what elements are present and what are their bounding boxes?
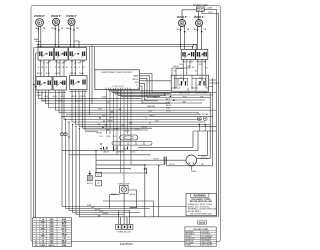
right drop wire A [209,92,211,158]
junction dot lower [146,172,147,173]
infinite switch SW1 [38,48,54,61]
label right mesh texts [146,97,159,123]
svg-text:R-BK: R-BK [79,73,84,75]
wire riser stub [34,39,41,41]
warning box W1 [186,193,217,215]
selector switch SW7 [53,77,67,91]
label mesh wires [98,97,156,129]
wire lock motor drop [144,165,146,217]
svg-text:W-BK: W-BK [114,129,120,131]
svg-text:H1: H1 [55,61,57,63]
surface unit SU3 [68,18,75,25]
svg-text:N.O.: N.O. [180,78,184,80]
junction dots on buses [38,44,39,45]
svg-text:OR-B: OR-B [55,73,61,75]
surface unit SU1 (dual) [36,19,44,27]
svg-text:P2: P2 [97,183,99,185]
right drop wire D [218,14,220,217]
svg-text:SWITCH: SWITCH [116,152,124,154]
wire TB1 to SU5 [197,12,199,20]
wire switch to relay feeders [176,59,206,75]
switch SW2 contacts [56,52,66,57]
svg-text:V-BK: V-BK [102,97,107,99]
wire SU5 to switch [197,26,201,50]
svg-text:BROIL: BROIL [133,79,140,81]
label terminal row under SW4 [182,61,206,63]
svg-text:R-W: R-W [46,73,50,75]
wire SU2 to switch [55,25,59,48]
svg-text:BAKE: BAKE [133,75,139,78]
svg-text:R-W: R-W [179,64,183,66]
latch cable bar [112,142,152,146]
switch contact arrows [43,53,203,84]
infinite switch SW4 [181,49,195,59]
wire extra mesh lines [66,115,196,132]
wire SU4 to switch [180,26,184,50]
switch SW3 contacts [70,52,84,57]
wire under row2 boxes [36,92,87,93]
label relay internals [180,78,203,80]
svg-text:P1: P1 [97,175,99,177]
door lock assembly A1 [100,135,153,154]
svg-text:N-W: N-W [209,12,213,14]
svg-text:N.C.: N.C. [113,136,117,138]
label right column [166,105,171,113]
infinite switch SW2 [55,48,69,61]
svg-text:GY-R: GY-R [198,64,203,66]
svg-text:H1: H1 [71,61,73,63]
arrow marks on left risers [33,84,37,88]
infinite switch SW3 (dual) [69,48,87,61]
svg-text:L1-BK: L1-BK [207,8,213,10]
arrow ticks on SU wires [37,29,202,34]
svg-text:W: W [46,67,48,69]
svg-text:BK-W: BK-W [37,73,42,75]
svg-text:H1: H1 [197,61,199,63]
svg-text:BK-R: BK-R [174,66,179,68]
svg-text:ELECTRONIC OVEN CONTROL: ELECTRONIC OVEN CONTROL [102,72,133,74]
svg-text:BK-R: BK-R [150,115,155,117]
svg-text:T-BU: T-BU [182,102,187,104]
wire TB1 N to right drop [202,12,219,14]
wire lock lines [62,131,210,173]
svg-text:AS LINE PARTS: AS LINE PARTS [188,210,202,213]
svg-text:MOTOR: MOTOR [200,158,208,160]
wire SW2 down feeders [57,60,65,77]
svg-text:W: W [62,67,64,69]
svg-text:1500W 6": 1500W 6" [194,16,205,19]
svg-text:316255319: 316255319 [120,242,134,246]
selector switch SW8 [70,76,88,90]
switch SW1 contacts [40,52,52,57]
svg-text:BK-W: BK-W [70,73,75,75]
svg-text:USE COPPER WIRE ONLY: USE COPPER WIRE ONLY [190,214,213,216]
junction dots mesh [61,116,80,138]
wire SW1 down feeders [41,60,49,77]
svg-text:H2: H2 [49,61,51,63]
wire SU3 to switch [70,25,79,48]
svg-text:V-W: V-W [135,129,139,131]
wire SW3 down feeders [72,60,83,76]
svg-text:TERM. BLOCK: TERM. BLOCK [117,232,131,234]
wire fan below EOC [109,90,210,97]
svg-text:LATCH: LATCH [103,151,109,154]
svg-text:NOTE: NOTE [199,223,206,225]
right drop wire C [216,9,218,217]
latch cam pill [120,135,138,140]
switch SW8 contacts [71,80,85,85]
wire harness mesh [39,90,217,131]
svg-text:BK-W: BK-W [166,105,171,107]
note tag [198,221,207,225]
svg-text:N.O.: N.O. [100,136,104,138]
latch arrows [100,143,102,150]
wire lamp left [110,195,120,209]
supply terminal block TB1 [193,5,208,12]
svg-text:GY-W: GY-W [107,120,112,122]
surface unit SU2 [53,18,60,25]
svg-text:BK-GY: BK-GY [87,183,94,185]
label mesh clutter texts [96,117,139,135]
wire lamp bottom [123,193,125,224]
label latch row [100,136,117,138]
svg-text:W-R: W-R [98,108,103,110]
wire EOC to relays and right drops [140,74,219,104]
svg-text:OR-R: OR-R [166,111,171,113]
wire bus L1 [37,44,196,46]
svg-text:BU-GY: BU-GY [169,164,175,166]
wire gap verticals to mesh [90,45,95,115]
switch SW6 contacts [38,81,50,86]
wire motor bottom stub [190,166,192,170]
wire TB1 to SU4 [182,10,196,20]
surface unit SU5 [196,20,203,27]
wire bus L2 [37,46,193,48]
arrow marks right of EOC [163,93,175,101]
label relay feeder wires [179,64,203,69]
switch SW7 contacts [55,81,65,86]
connector P2 [96,180,102,186]
svg-text:OR-BK: OR-BK [96,133,103,135]
svg-text:COM: COM [106,136,111,138]
electronic oven control U1 [95,70,140,90]
wire SU1 to switch [38,26,41,47]
lock motor M1 [186,155,208,166]
svg-text:GY-R: GY-R [60,96,65,98]
svg-text:1500W 6": 1500W 6" [66,15,77,18]
svg-text:BR-W: BR-W [103,213,108,215]
infinite switch SW5 [196,49,208,59]
wire bundle to bottom [62,117,217,217]
svg-text:GY-W: GY-W [154,159,159,161]
switch arms [39,54,202,87]
wire bus end drops [193,45,197,50]
label terminal row under SW1 [39,60,85,63]
svg-text:H2: H2 [64,61,66,63]
probe receptacle J1 [193,113,216,131]
svg-text:BU-BR: BU-BR [149,106,156,108]
wire SW4 to relay area [172,59,202,75]
svg-text:WATTS: WATTS [49,244,56,247]
svg-text:W-BK: W-BK [191,171,197,173]
chart table T1 [33,218,72,247]
svg-text:T-W: T-W [153,97,157,99]
svg-text:R-BK: R-BK [37,95,42,97]
svg-text:OR-W: OR-W [141,127,147,129]
fuse F1 arrow [87,171,94,186]
arrow on motor drop [144,168,146,170]
svg-text:WARNING: WARNING [194,194,207,198]
svg-text:W: W [83,67,85,69]
svg-text:T-TAN: T-TAN [186,244,192,247]
relay board U2 [166,68,209,105]
label bundle wires [87,205,108,217]
wire lamp right to drop [128,166,159,217]
label mesh clutter arrows [98,109,121,131]
svg-text:GN/Y-GN/YEL: GN/Y-GN/YEL [201,245,212,247]
color code table T2 [185,227,216,247]
svg-text:2500W 8": 2500W 8" [34,15,45,18]
indicator lamp L1 [60,133,63,136]
svg-text:POWER CORD: POWER CORD [193,5,208,7]
EOC bottom drops [107,90,165,186]
selector switch SW6 [36,77,52,91]
svg-text:T-R: T-R [148,111,152,113]
connector P1 [96,172,102,176]
svg-text:H2: H2 [83,61,85,63]
svg-text:DLB: DLB [135,82,140,84]
wire lower junction [96,168,147,173]
svg-text:H1: H1 [39,61,41,63]
svg-text:H2: H2 [191,61,193,63]
svg-text:BEFORE SERVICING UNIT: BEFORE SERVICING UNIT [190,201,213,203]
svg-text:N.O.: N.O. [199,78,203,80]
svg-text:H1: H1 [182,61,184,63]
switch SW4 contacts [183,52,194,57]
svg-text:LOCK: LOCK [131,152,137,154]
indicator lamp L2 [64,133,67,136]
switch SW5 contacts [198,52,207,57]
label wire row under top switches [38,67,85,69]
wire TB1 L1 to right drop [204,8,216,10]
svg-text:H2: H2 [204,61,206,63]
svg-text:BU-R: BU-R [125,130,130,132]
wire terminal block risers [119,211,130,225]
right drop wire B [212,78,214,166]
svg-text:R-W: R-W [166,108,170,110]
oven lamp DS1 [111,184,135,197]
svg-text:1 2 3 4 5 6 7 8 9: 1 2 3 4 5 6 7 8 9 [112,86,124,88]
svg-text:1500W 6": 1500W 6" [51,15,62,18]
junction dots lower [95,150,159,167]
latch switch contacts [104,147,128,150]
wire left riser pair [34,48,38,218]
wire stair to right riser [103,201,154,217]
terminal block TB2 [116,224,133,233]
svg-text:MEAT PROBE: MEAT PROBE [196,113,209,116]
svg-text:BK-W: BK-W [130,194,135,196]
wire relay internals [171,75,208,91]
surface unit SU4 [179,20,186,27]
capacitor C1 on motor line [96,157,213,166]
